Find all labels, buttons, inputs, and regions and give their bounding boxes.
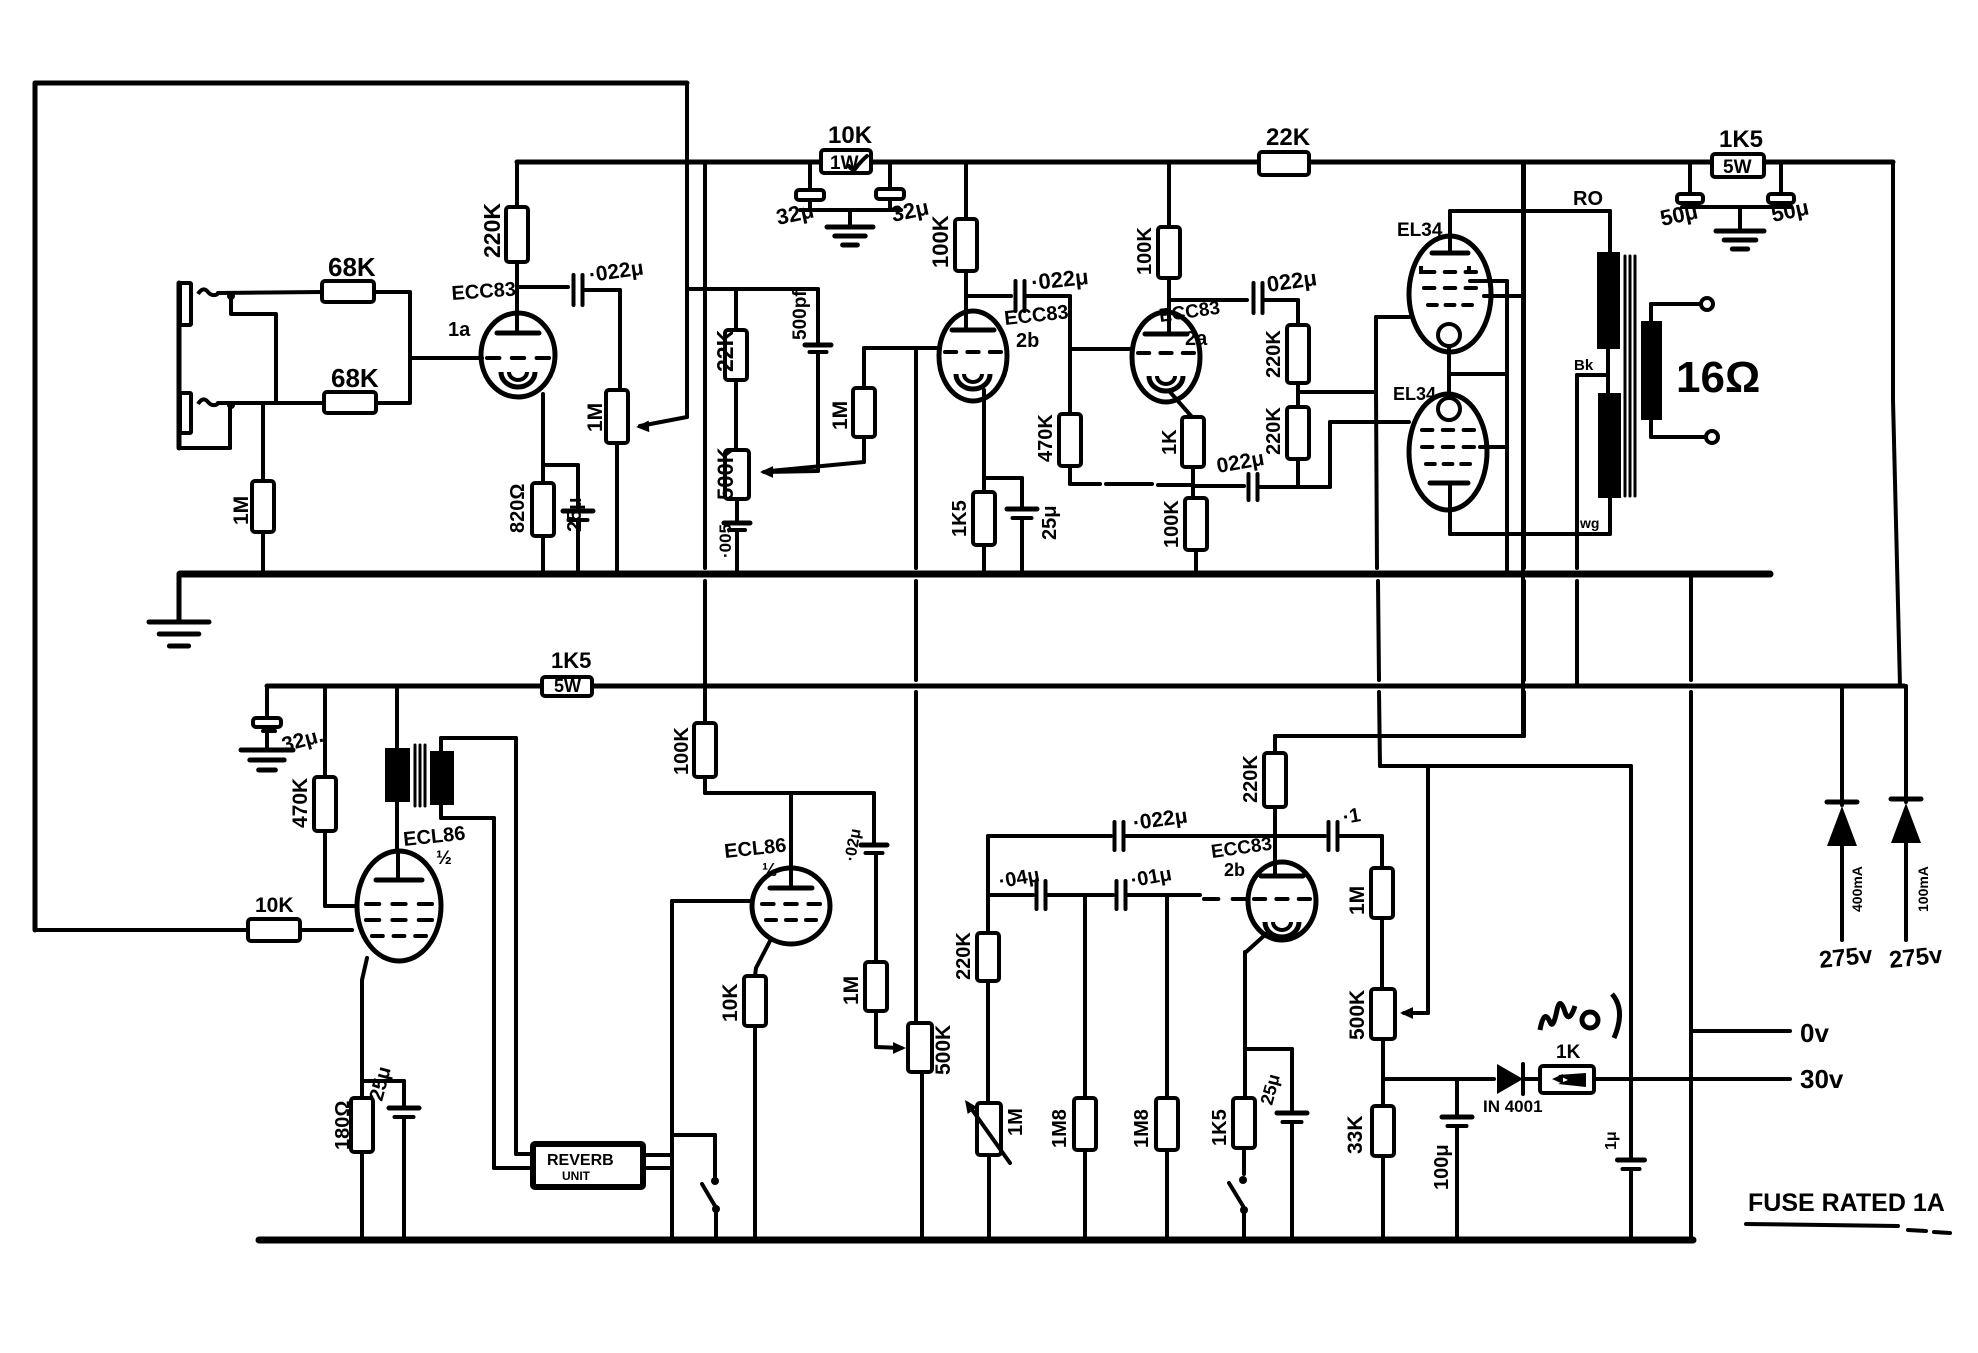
transformer OPT secondary [1641,321,1662,420]
capacitor 25u (V2 cathode) [984,478,1061,574]
svg-text:1M: 1M [230,496,253,525]
svg-text:100K: 100K [1134,227,1156,275]
tube V6 ECL86 half [357,823,466,961]
resistor 1M (mixer) [840,853,887,1011]
svg-text:1μ: 1μ [1603,1131,1620,1150]
svg-text:100K: 100K [671,727,693,775]
transformer OPT core [1608,256,1635,496]
wire grid junction to EL34 no1 [1298,317,1409,392]
svg-text:22K: 22K [1266,124,1311,151]
svg-text:2b: 2b [1016,330,1039,352]
diode rectifier 2 [1888,686,1945,974]
svg-text:220K: 220K [1263,330,1285,378]
tube V5 cathode [1438,398,1460,420]
resistor 1M8 (phase 2) [1049,895,1096,1240]
wire reverb return lower [643,1166,672,1170]
resistor 820R (V1 cathode) [507,394,554,574]
resistor 1K5 5W (screen rail) [542,648,592,696]
wire reverb send lower [441,805,533,1168]
svg-text:1K5: 1K5 [551,648,591,673]
svg-text:⅓: ⅓ [762,860,777,880]
wire 0v tap [1691,1018,1829,1048]
ground (input) [149,622,209,646]
svg-text:100K: 100K [928,215,953,268]
transformer reverb primary [385,686,410,802]
wire ECL86b plate node [705,777,874,793]
resistor 22K (rail) [1259,124,1311,175]
wire bias feed [1380,764,1631,768]
resistor 100K (V3 tail) [1161,498,1207,574]
wire mid ground rail [180,571,1770,578]
svg-text:470K: 470K [289,778,312,828]
wire screens line [1484,162,1523,736]
svg-text:Bk: Bk [1574,357,1594,374]
resistor 22K (PI) [712,289,747,450]
wire jack1 tip to 68K [218,292,322,293]
wire PI network top [687,287,818,291]
capacitor .022u (NFB) [1193,447,1298,500]
node jack1 tip [227,292,235,300]
pot 500K (PI) [713,447,749,523]
svg-text:1M: 1M [1005,1108,1027,1136]
wire B+ rail segment 3 [1309,160,1713,165]
wire V2 grid to tone stack [914,348,918,1023]
wire jack2 tip to 68K [218,401,325,405]
resistor 1K (V3 cathode) [1159,392,1204,498]
resistor 470K (ECL86 grid) [289,686,336,906]
resistor 1K5 (osc cathode) [1209,934,1266,1148]
resistor 470K (V3 grid) [1035,349,1081,484]
svg-text:100μ: 100μ [1431,1144,1453,1190]
wire cathode to ground [1470,281,1507,574]
svg-text:1a: 1a [448,319,471,341]
capacitor 25u (V1 cathode) [543,465,593,574]
svg-text:10K: 10K [255,894,294,917]
wire B+ rail segment 4 [1764,160,1893,165]
svg-text:FUSE RATED 1A: FUSE RATED 1A [1748,1189,1945,1217]
label 16 ohm [1676,353,1760,402]
wire to reverb switch [672,1135,715,1177]
switch reverb [702,1177,720,1240]
svg-text:400mA: 400mA [1849,866,1865,912]
wire 500K wiper [760,466,818,478]
resistor 220K (V1 plate) [479,162,528,331]
svg-text:REVERB: REVERB [547,1152,614,1169]
pot 1M (V1 volume) [584,290,628,574]
wire bottom rail [259,1237,1693,1244]
svg-text:1M8: 1M8 [1049,1109,1071,1148]
svg-text:1M: 1M [1346,886,1369,915]
svg-text:275v: 275v [1888,941,1945,974]
wire feedback to 1M pot wiper with arrow [636,417,687,433]
svg-text:2b: 2b [1224,860,1245,880]
capacitor 32u (left of 10K) [774,162,824,230]
wire 1M to 500K wiper [770,437,864,471]
svg-text:ECC83: ECC83 [451,279,517,305]
diode 1N4001 [1483,1064,1543,1116]
wire B+ rail segment 2 [871,160,1259,165]
wire bias line down [1376,392,1380,766]
wire lower cap to EL34 no2 grid [1298,422,1409,487]
svg-text:·1: ·1 [1341,804,1362,829]
svg-text:68K: 68K [328,252,376,282]
svg-text:30v: 30v [1800,1064,1844,1094]
svg-text:1M: 1M [840,976,863,1005]
tube V2 ECC83 2b [939,301,1070,401]
svg-text:25μ: 25μ [1039,506,1061,540]
svg-text:½: ½ [436,848,452,869]
svg-text:220K: 220K [1263,407,1285,455]
ground (below 32u caps) [827,227,873,245]
capacitor 1u (bias) [1603,766,1645,1238]
capacitor .022u (osc) [988,805,1275,850]
resistor 10K (feedback in) [35,894,352,941]
transformer OPT primary upper [1597,252,1620,349]
capacitor 25u (ECL86 cathode) [362,1064,419,1240]
svg-text:33K: 33K [1344,1115,1367,1154]
tube V3 ECC83 2a [1132,298,1221,402]
resistor 1K5 5W [1712,126,1764,178]
resistor 220K (phase 1) [953,932,999,1103]
wire rail right corner [1893,162,1900,686]
resistor 10K 1W [821,122,873,174]
svg-text:1K: 1K [1556,1042,1581,1063]
resistor 1M (input) [230,403,274,574]
svg-text:EL34: EL34 [1393,384,1436,404]
transformer reverb secondary [430,751,454,805]
resistor 1M (V2 grid) [829,348,875,437]
capacitor 50u (left of 1K5) [1658,164,1703,231]
capacitor 32u (right of 10K) [876,162,931,227]
wire 30v line left [1383,1077,1494,1081]
jack J2 socket [180,393,218,433]
wire feedback vertical to PI network [685,83,689,417]
wire reverb send upper [441,738,533,1154]
wire 68K junction to grid [374,292,482,403]
tube V4 EL34 upper [1397,220,1491,352]
wire V2 grid [864,346,936,350]
wire OPT centre tap Bk [1574,357,1608,686]
wire mixer to 500K wiper [876,1011,906,1054]
box REVERB UNIT [533,1144,643,1187]
svg-text:1K5: 1K5 [1719,126,1763,153]
capacitor 500pF [790,289,831,471]
transformer reverb core [415,745,425,806]
wire cathodes join [1449,346,1507,398]
resistor 100K (ECL86b plate) [671,686,716,777]
capacitor .022u (V2 out) [966,264,1090,311]
wire B+ rail segment 1 [517,160,822,165]
label FUSE RATED 1A [1746,1189,1950,1233]
capacitor .005u (PI) [716,523,750,574]
svg-text:500pf: 500pf [790,290,811,340]
ground (below 50u caps) [1716,231,1764,249]
transformer OPT primary lower [1598,393,1621,498]
svg-text:1M: 1M [829,401,852,430]
tube V7 ECL86 half [723,835,830,944]
svg-text:220K: 220K [479,203,505,258]
svg-text:220K: 220K [953,932,975,980]
svg-text:·005: ·005 [716,524,735,558]
svg-text:68K: 68K [331,363,379,393]
wire phase net vertical [986,836,990,933]
diode rectifier 1 [1818,686,1875,974]
resistor 1M (trem out) [1346,836,1393,989]
resistor 220K (osc plate) [1240,736,1286,876]
wire 0V riser [1689,574,1693,1240]
svg-text:UNIT: UNIT [562,1169,591,1183]
svg-text:5W: 5W [1723,157,1752,178]
capacitor .1u (trem out) [1275,804,1382,850]
svg-text:275v: 275v [1818,941,1875,974]
terminal output lower [1706,431,1718,443]
svg-text:500K: 500K [932,1025,955,1075]
wire screen rail [267,684,1904,689]
capacitor 25u (osc cathode) [1245,1049,1307,1240]
wire ECL86b grid [672,899,750,903]
capacitor .02u (mixer) [842,793,887,863]
svg-text:1K5: 1K5 [949,500,971,537]
resistor 180R (ECL86 cathode) [332,958,373,1240]
switch tremolo [1229,1148,1248,1240]
wire 50u common [1682,207,1791,228]
svg-text:100K: 100K [1161,500,1183,548]
tube V5 EL34 lower [1393,384,1487,510]
svg-text:220K: 220K [1240,755,1262,803]
capacitor 50u (right of 1K5) [1768,164,1811,227]
wire V5 plate to OPT [1450,483,1610,534]
svg-text:470K: 470K [1035,414,1057,462]
pot 500K (volume) [908,1023,955,1240]
wire ECL86 grid entry [325,904,356,908]
svg-text:10K: 10K [828,122,873,149]
wire jack ground drop [177,574,182,620]
resistor 1M variable (phase) [960,1097,1027,1240]
resistor 1K (lamp) [1523,1042,1594,1093]
resistor 1K5 (V2 cathode) [949,390,995,574]
node jack2 tip [227,401,235,409]
wire ECL86b plate stub [789,793,793,888]
svg-text:820Ω: 820Ω [507,484,529,533]
svg-text:500K: 500K [713,447,738,500]
capacitor 100u [1431,1079,1472,1240]
wire secondary to terminals [1651,304,1705,437]
svg-text:180Ω: 180Ω [332,1101,354,1150]
svg-text:1M: 1M [584,403,607,432]
pot 500K (trem depth) [1346,989,1395,1106]
svg-text:22K: 22K [712,329,738,372]
capacitor .04u (phase) [988,864,1113,909]
resistor 1M8 (phase 3) [1131,895,1178,1240]
svg-text:16Ω: 16Ω [1676,353,1760,402]
resistor 33K [1344,1106,1394,1240]
wire osc feed [1275,162,1524,736]
tube V1 ECC83 1a [448,279,555,397]
wire jack ground plate [179,283,230,448]
wire top border feedback loop [35,83,687,930]
svg-text:100mA: 100mA [1915,866,1931,912]
capacitor 32u (reverb B+) [253,686,326,757]
resistor 100K (V2 plate) [928,162,977,330]
svg-text:IN 4001: IN 4001 [1483,1097,1543,1116]
squiggle Mo [1540,994,1620,1038]
svg-text:RO: RO [1573,188,1603,210]
svg-text:1K5: 1K5 [1209,1109,1231,1146]
terminal output upper [1701,298,1713,310]
wire to PI grid [1070,296,1131,349]
tube V4 cathode [1438,324,1460,346]
jack J1 socket [180,283,218,325]
svg-text:2a: 2a [1185,328,1208,350]
wire reverb return upper [643,901,672,1241]
svg-text:5W: 5W [554,676,581,696]
ground (reverb B+) [241,750,293,770]
wire B+ dropper vertical [703,162,707,686]
resistor 10K (ECL86b cathode) [719,941,770,1240]
svg-text:0v: 0v [1800,1018,1829,1048]
wire NFB line [1070,484,1193,485]
svg-text:1M8: 1M8 [1131,1109,1153,1148]
wire V4 plate to OPT [1450,188,1610,253]
svg-text:25μ: 25μ [564,498,586,532]
label Wh [1579,515,1599,531]
svg-text:10K: 10K [719,983,742,1022]
wire jack link [231,296,276,403]
resistor 68K (upper) [322,252,376,302]
resistor 220K (EL34 grid lower) [1263,383,1309,487]
wire 32u common [800,210,901,224]
capacitor .022u (to EL34 g1) [1169,265,1318,313]
svg-text:1K: 1K [1159,429,1181,455]
wire 30v line right [1594,1064,1844,1094]
resistor 220K (EL34 grid upper) [1263,300,1309,383]
tube V8 ECC83 2b osc [1210,834,1316,940]
capacitor .022u (V1 out) [517,257,645,305]
resistor 68K (lower) [324,363,379,413]
wire ECL86 plate to transformer [397,800,398,880]
capacitor .01u (phase) [1117,863,1201,909]
svg-text:wg: wg [1579,515,1599,531]
wire depth wiper [1400,766,1428,1019]
svg-text:EL34: EL34 [1397,220,1443,241]
resistor 100K (V3 plate) [1134,162,1180,334]
svg-text:500K: 500K [1346,990,1369,1040]
wire into osc grid [1204,897,1247,901]
